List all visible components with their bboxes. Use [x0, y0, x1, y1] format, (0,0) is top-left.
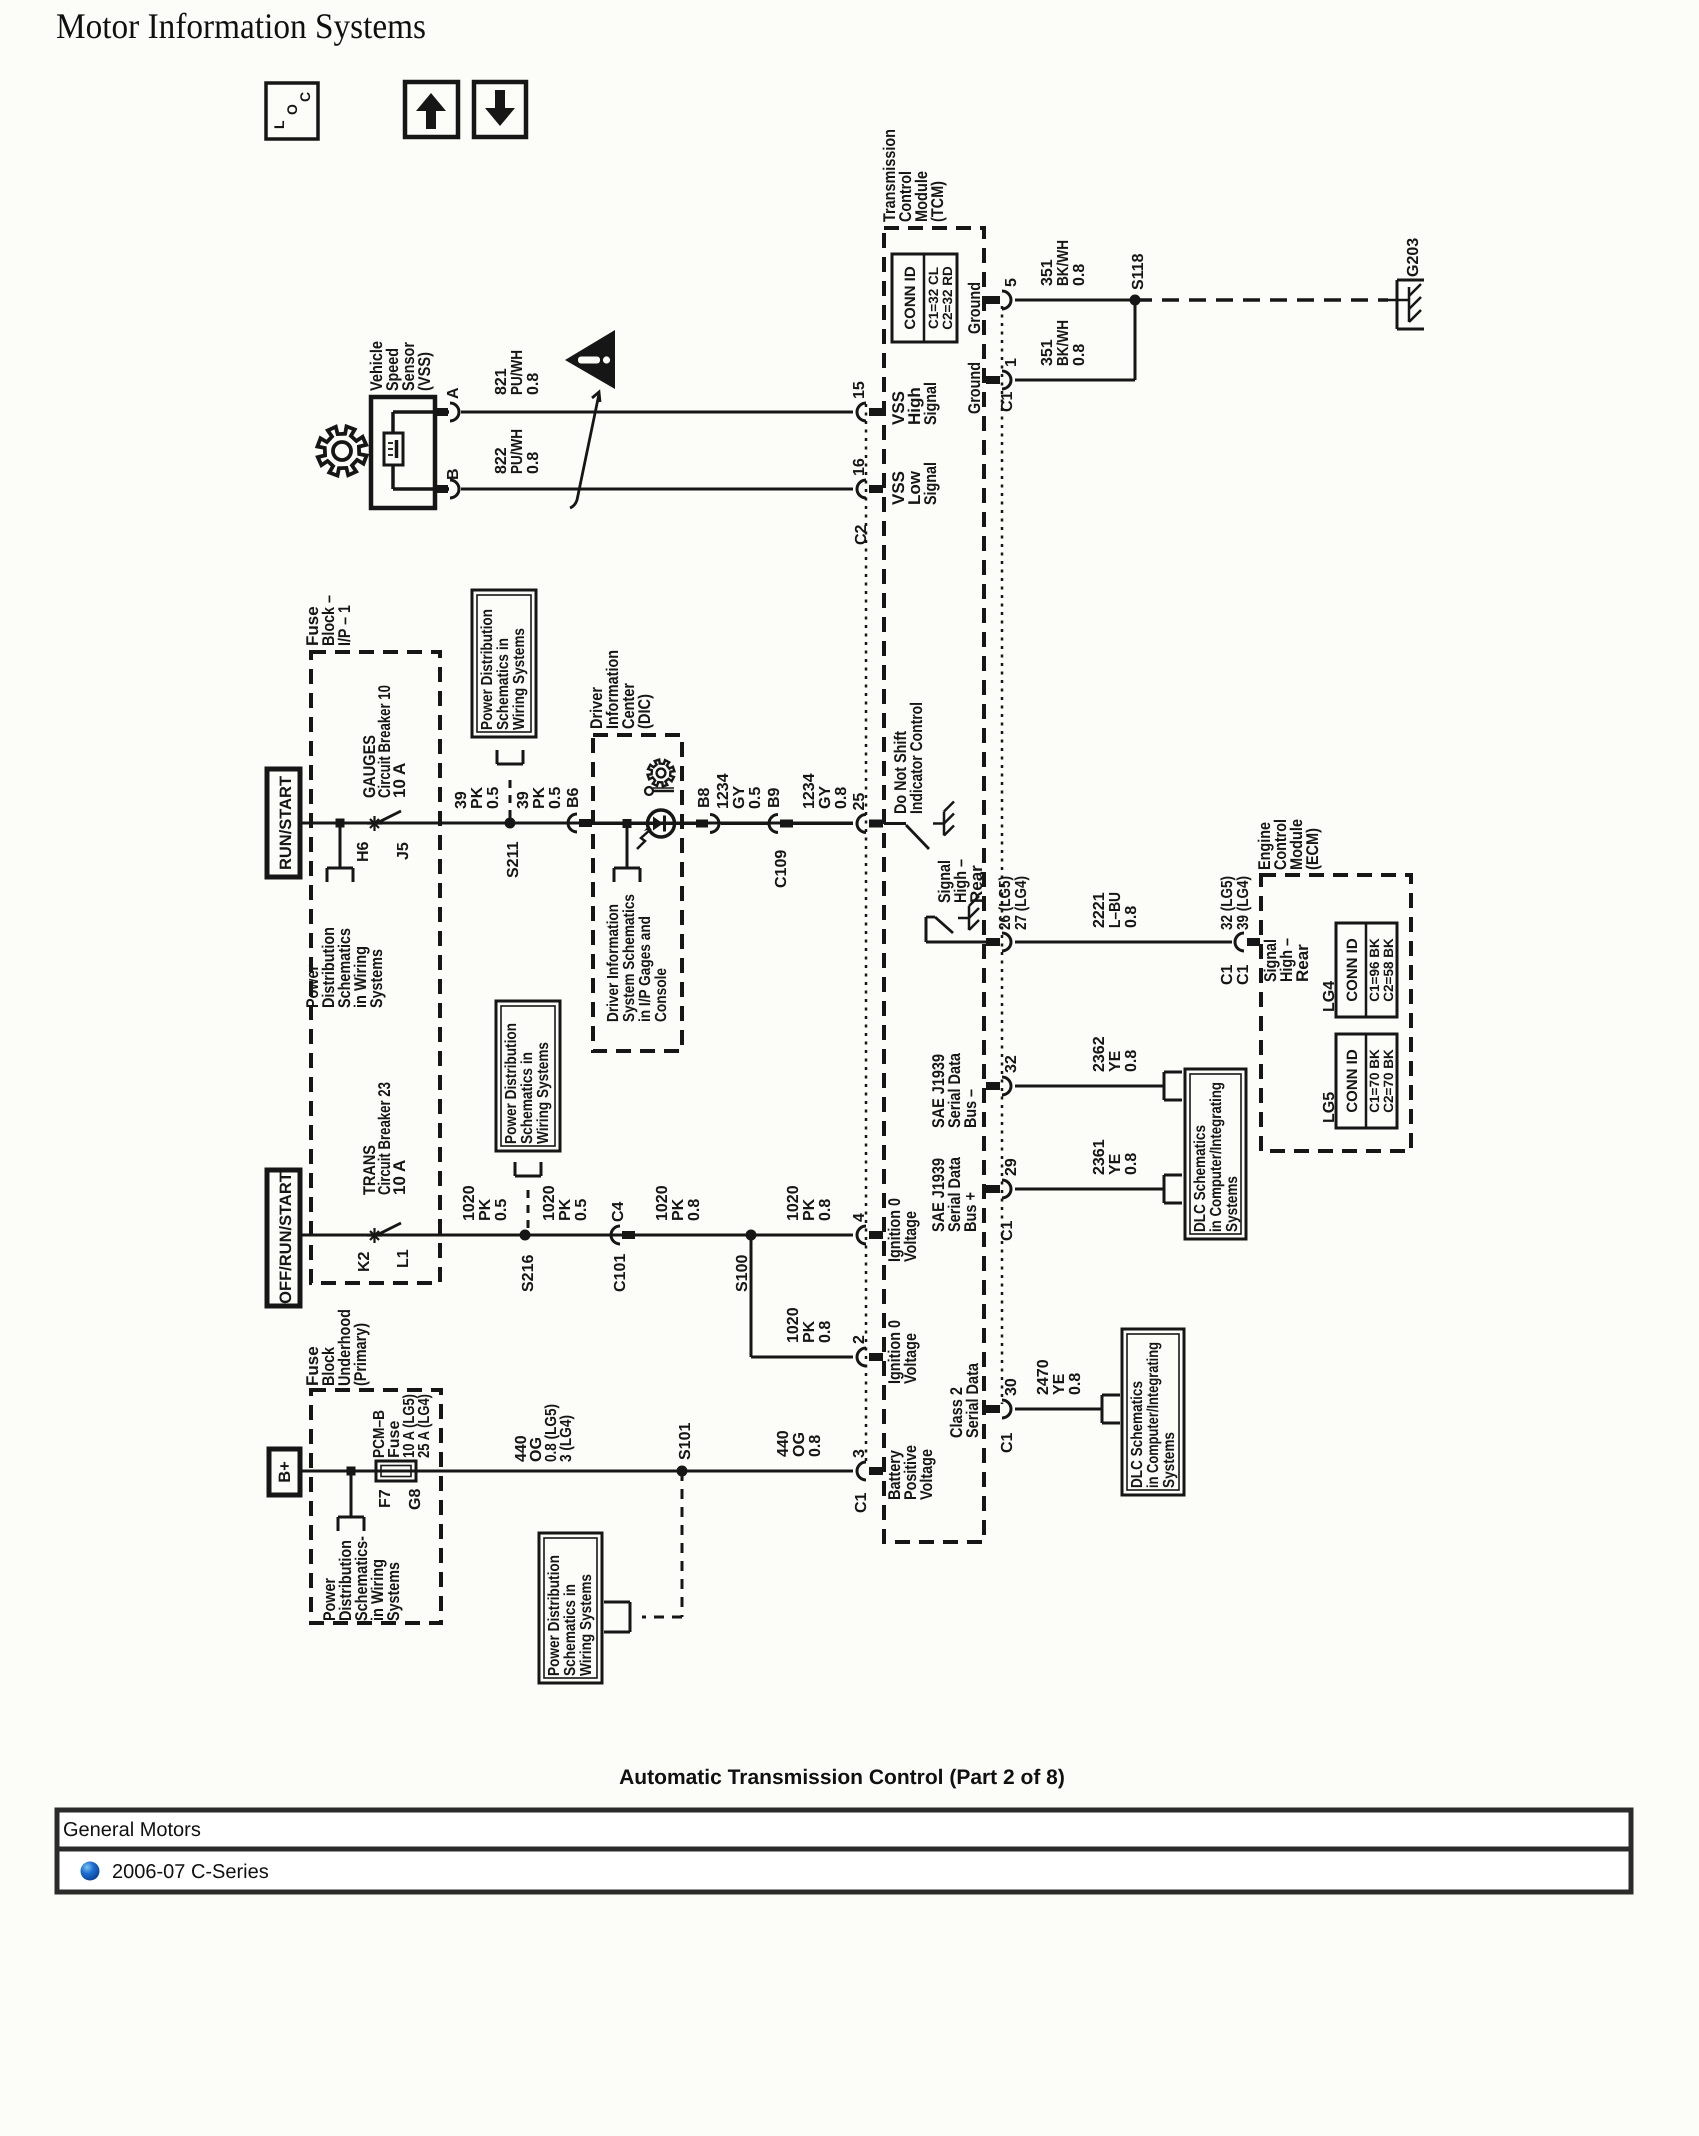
svg-text:PK: PK	[801, 1320, 818, 1343]
svg-text:Systems: Systems	[1161, 1432, 1178, 1488]
H6 stub and bracket	[336, 819, 345, 828]
TCM pin 15 VSS high signal	[857, 403, 866, 421]
svg-text:(TCM): (TCM)	[928, 181, 947, 222]
svg-text:15: 15	[851, 381, 868, 399]
svg-text:Signal: Signal	[921, 382, 940, 425]
footer table	[57, 1810, 1631, 1892]
svg-text:C1: C1	[999, 1220, 1016, 1241]
svg-text:PU/WH: PU/WH	[509, 429, 526, 474]
svg-text:YE: YE	[1051, 1373, 1068, 1395]
svg-text:YE: YE	[1107, 1050, 1124, 1072]
svg-text:(VSS): (VSS)	[415, 352, 434, 391]
engine control module ECM dashed box	[1261, 875, 1411, 1151]
svg-text:0.8: 0.8	[525, 373, 542, 395]
node S118	[1130, 295, 1141, 306]
svg-text:39: 39	[515, 791, 532, 809]
S216 dashed stub to power distribution box	[527, 1190, 530, 1230]
svg-text:DLC Schematics: DLC Schematics	[1129, 1381, 1146, 1488]
svg-text:3: 3	[851, 1449, 868, 1458]
svg-text:C1: C1	[999, 391, 1016, 412]
svg-text:G203: G203	[1405, 238, 1422, 277]
svg-text:System Schematics: System Schematics	[621, 894, 638, 1022]
svg-text:Schematics in: Schematics in	[495, 638, 512, 730]
svg-text:Console: Console	[653, 968, 670, 1022]
svg-text:Automatic Transmission Control: Automatic Transmission Control (Part 2 o…	[619, 1766, 1065, 1789]
svg-text:L: L	[271, 120, 287, 129]
svg-text:Systems: Systems	[384, 1562, 403, 1621]
svg-text:0.8: 0.8	[686, 1199, 703, 1221]
wire into DIC	[592, 822, 648, 825]
do not shift driver switch	[884, 822, 906, 825]
svg-text:0.5: 0.5	[547, 787, 564, 809]
wire B+ to S101	[300, 1470, 853, 1473]
svg-text:0.8: 0.8	[1123, 1050, 1140, 1072]
svg-text:25: 25	[851, 793, 868, 811]
svg-text:30: 30	[1003, 1378, 1020, 1396]
svg-text:C1: C1	[1219, 964, 1236, 985]
svg-text:Voltage: Voltage	[917, 1449, 936, 1500]
TCM pin 16 VSS low signal	[857, 480, 866, 498]
svg-text:1020: 1020	[785, 1185, 802, 1221]
bracket to DLC box 2	[1163, 1175, 1166, 1203]
B+ tag	[269, 1449, 300, 1495]
VSS coil element	[384, 433, 403, 465]
svg-text:1: 1	[1003, 358, 1020, 367]
svg-text:Driver Information: Driver Information	[605, 904, 622, 1022]
svg-text:C: C	[297, 92, 313, 102]
ECM LG4 CONN ID table	[1336, 923, 1397, 1017]
svg-text:Rear: Rear	[1293, 944, 1312, 982]
transmission control module TCM dashed box	[884, 228, 984, 1542]
svg-text:0.8: 0.8	[807, 1435, 824, 1457]
wire OFF/RUN/START to TCM pin 4	[300, 1234, 853, 1237]
svg-text:J5: J5	[395, 842, 412, 860]
svg-text:10 A: 10 A	[390, 1160, 409, 1195]
svg-text:BK/WH: BK/WH	[1055, 240, 1072, 286]
B+ stub and bracket	[347, 1467, 356, 1476]
svg-text:Schematics in: Schematics in	[519, 1052, 536, 1144]
svg-text:L1: L1	[395, 1249, 412, 1268]
S211 dashed stub to power distribution box	[509, 780, 512, 818]
svg-text:1020: 1020	[785, 1307, 802, 1343]
svg-text:(Primary): (Primary)	[351, 1323, 370, 1386]
svg-text:C2=58 BK: C2=58 BK	[1381, 938, 1396, 1002]
svg-text:821: 821	[493, 368, 510, 395]
svg-text:PK: PK	[477, 1198, 494, 1221]
svg-text:Bus –: Bus –	[961, 1089, 980, 1128]
svg-text:2221: 2221	[1091, 892, 1108, 928]
svg-text:G8: G8	[407, 1489, 424, 1510]
VSS pin A	[436, 408, 448, 416]
svg-text:5: 5	[1003, 278, 1020, 287]
svg-text:C2=70 BK: C2=70 BK	[1381, 1049, 1396, 1113]
svg-text:2470: 2470	[1035, 1359, 1052, 1395]
svg-text:0.8: 0.8	[1067, 1373, 1084, 1395]
svg-text:GY: GY	[817, 786, 834, 809]
node S211	[505, 818, 516, 829]
svg-text:PU/WH: PU/WH	[509, 350, 526, 395]
signal high rear switch	[925, 917, 928, 942]
svg-text:0.8: 0.8	[1123, 906, 1140, 928]
svg-text:29: 29	[1003, 1158, 1020, 1176]
lamp zigzag arrow	[637, 829, 651, 849]
svg-text:C1: C1	[999, 1432, 1016, 1453]
svg-text:10 A: 10 A	[390, 763, 409, 798]
svg-text:440: 440	[775, 1430, 792, 1457]
wire 2470 YE	[1015, 1408, 1102, 1411]
svg-text:PK: PK	[670, 1198, 687, 1221]
svg-text:in Computer/Integrating: in Computer/Integrating	[1145, 1342, 1162, 1488]
power distribution schematics box (top)	[472, 590, 536, 737]
svg-text:Ground: Ground	[965, 282, 984, 334]
bracket to power distribution box (bottom)	[629, 1602, 632, 1632]
svg-text:39: 39	[453, 791, 470, 809]
RUN/START tag	[267, 769, 300, 877]
power distribution schematics box (bottom)	[539, 1533, 602, 1683]
svg-text:0.8: 0.8	[817, 1199, 834, 1221]
svg-text:LG5: LG5	[1321, 1092, 1338, 1123]
svg-text:0.8: 0.8	[1123, 1153, 1140, 1175]
TCM pin 3 battery positive voltage	[857, 1462, 866, 1480]
svg-text:351: 351	[1039, 339, 1056, 366]
svg-text:Wiring Systems: Wiring Systems	[535, 1042, 552, 1144]
VSS pin B	[436, 485, 448, 493]
down arrow icon	[474, 82, 526, 137]
TCM pin 2 ignition 0 voltage	[857, 1348, 866, 1366]
ground (signal high rear)	[958, 917, 969, 920]
svg-text:0.8: 0.8	[1071, 264, 1088, 286]
svg-text:C2: C2	[853, 524, 870, 545]
svg-text:Motor Information Systems: Motor Information Systems	[56, 6, 426, 46]
fuse block underhood dashed box	[311, 1390, 441, 1623]
svg-text:PK: PK	[531, 786, 548, 809]
svg-text:C101: C101	[612, 1254, 629, 1292]
svg-text:PK: PK	[557, 1198, 574, 1221]
svg-text:Systems: Systems	[367, 949, 386, 1008]
svg-text:H6: H6	[355, 841, 372, 862]
svg-text:2362: 2362	[1091, 1036, 1108, 1072]
wire DIC to B8	[674, 822, 697, 825]
svg-text:in I/P Gages and: in I/P Gages and	[637, 916, 654, 1022]
svg-text:Schematics in: Schematics in	[562, 1584, 579, 1676]
ECM LG5 CONN ID table	[1336, 1034, 1397, 1128]
TCM connector dotted line right	[1001, 306, 1004, 1404]
wire 351 BK/WH pin 5	[1015, 299, 1135, 302]
GAUGES circuit breaker 10A	[367, 816, 382, 831]
svg-text:S216: S216	[520, 1255, 537, 1292]
caution triangle	[565, 330, 615, 389]
fuse F7 PCM-B	[376, 1461, 416, 1481]
node S216	[520, 1230, 531, 1241]
svg-text:B: B	[445, 468, 462, 480]
globe icon	[81, 1862, 100, 1881]
driver information center DIC dashed box	[593, 735, 682, 1051]
svg-text:Voltage: Voltage	[901, 1211, 920, 1262]
svg-text:PK: PK	[801, 1198, 818, 1221]
VSS internal wiring	[393, 410, 449, 414]
svg-text:Rear: Rear	[967, 865, 986, 903]
svg-text:General Motors: General Motors	[63, 1819, 201, 1841]
TCM C2/C1 connector dotted line left	[865, 404, 868, 1466]
twisted pair slash arrow	[570, 394, 599, 508]
svg-text:Bus +: Bus +	[961, 1192, 980, 1232]
svg-text:YE: YE	[1107, 1153, 1124, 1175]
svg-text:16: 16	[851, 458, 868, 476]
wire 351 BK/WH pin 1	[1015, 379, 1135, 382]
svg-text:LG4: LG4	[1321, 981, 1338, 1012]
svg-text:B9: B9	[766, 787, 783, 808]
svg-text:in Computer/Integrating: in Computer/Integrating	[1208, 1082, 1225, 1232]
svg-text:0.5: 0.5	[747, 787, 764, 809]
node S101	[677, 1466, 688, 1477]
ground G203	[1397, 279, 1424, 282]
svg-text:CONN ID: CONN ID	[902, 266, 919, 330]
svg-text:B+: B+	[276, 1461, 294, 1483]
svg-text:Systems: Systems	[1224, 1176, 1241, 1232]
svg-text:0.8: 0.8	[833, 787, 850, 809]
svg-text:0.8: 0.8	[1071, 344, 1088, 366]
svg-text:OG: OG	[791, 1432, 808, 1457]
svg-text:OFF/RUN/START: OFF/RUN/START	[277, 1172, 295, 1304]
DLC schematics box (J1939)	[1185, 1069, 1246, 1239]
dashed wire S118 to G203	[1135, 298, 1388, 302]
svg-text:S118: S118	[1130, 253, 1147, 290]
svg-text:C2=32 RD: C2=32 RD	[940, 266, 955, 330]
svg-text:0.8: 0.8	[525, 452, 542, 474]
connector C101 / C4	[611, 1226, 620, 1244]
wire label 1234 GY 0.8	[793, 822, 853, 825]
svg-text:822: 822	[493, 447, 510, 474]
svg-text:Power Distribution: Power Distribution	[503, 1023, 520, 1144]
ECM pin 32/39	[1235, 933, 1244, 951]
svg-text:39 (LG4): 39 (LG4)	[1235, 876, 1252, 930]
svg-text:S101: S101	[677, 1423, 694, 1460]
svg-text:C109: C109	[773, 850, 790, 888]
svg-text:DLC Schematics: DLC Schematics	[1192, 1125, 1209, 1232]
wire 821 PU/WH (VSS A to TCM 15)	[461, 411, 853, 414]
TCM pin 4 ignition 0 voltage	[857, 1226, 866, 1244]
LOC icon box	[266, 83, 318, 139]
svg-text:2: 2	[851, 1335, 868, 1344]
OFF/RUN/START tag	[267, 1170, 300, 1306]
svg-text:Signal: Signal	[921, 462, 940, 505]
svg-text:O: O	[284, 104, 300, 115]
TCM pin 26/27	[986, 938, 1000, 946]
wire 2362 YE	[1015, 1085, 1164, 1088]
svg-text:0.5: 0.5	[493, 1199, 510, 1221]
TCM CONN ID table	[892, 254, 957, 342]
svg-text:0.8: 0.8	[817, 1321, 834, 1343]
svg-text:F7: F7	[377, 1489, 394, 1508]
connector B6	[568, 814, 577, 832]
wire RUN/START to S211	[300, 822, 853, 825]
bracket to DLC box	[1163, 1072, 1166, 1100]
svg-text:GY: GY	[731, 786, 748, 809]
svg-text:32 (LG5): 32 (LG5)	[1219, 876, 1236, 930]
svg-text:351: 351	[1039, 259, 1056, 286]
svg-text:(DIC): (DIC)	[635, 694, 654, 729]
TRANS circuit breaker 10A	[367, 1228, 382, 1243]
svg-text:26 (LG5): 26 (LG5)	[997, 876, 1014, 930]
svg-text:1020: 1020	[654, 1185, 671, 1221]
svg-text:C1=32 CL: C1=32 CL	[926, 267, 941, 329]
svg-text:S211: S211	[505, 841, 522, 878]
svg-text:Wiring Systems: Wiring Systems	[511, 628, 528, 730]
wire 2221 L-BU	[1015, 941, 1232, 944]
svg-text:C1=96 BK: C1=96 BK	[1367, 938, 1382, 1002]
gear icon (vehicle speed sensor)	[317, 426, 366, 475]
vehicle speed sensor VSS box	[371, 397, 435, 508]
svg-text:BK/WH: BK/WH	[1055, 320, 1072, 366]
svg-text:0.5: 0.5	[485, 787, 502, 809]
svg-text:(ECM): (ECM)	[1303, 828, 1322, 870]
svg-text:4: 4	[851, 1213, 868, 1222]
TCM pin 25 do not shift	[857, 815, 866, 833]
svg-text:RUN/START: RUN/START	[277, 776, 295, 870]
svg-text:PK: PK	[469, 786, 486, 809]
svg-text:C1: C1	[1235, 964, 1252, 985]
svg-text:S100: S100	[734, 1255, 751, 1292]
svg-text:CONN ID: CONN ID	[1344, 1049, 1361, 1113]
fuse block I/P dashed box	[311, 652, 440, 1283]
svg-text:B8: B8	[696, 787, 713, 808]
svg-text:Indicator Control: Indicator Control	[907, 702, 926, 814]
svg-text:Power Distribution: Power Distribution	[546, 1555, 563, 1676]
svg-text:K2: K2	[356, 1251, 373, 1272]
DLC schematics box (class 2)	[1122, 1329, 1184, 1495]
svg-text:CONN ID: CONN ID	[1344, 938, 1361, 1002]
svg-text:L–BU: L–BU	[1107, 892, 1124, 928]
svg-text:Ground: Ground	[965, 362, 984, 414]
bracket to DLC box (class 2)	[1101, 1395, 1104, 1423]
svg-text:1020: 1020	[461, 1185, 478, 1221]
svg-text:32: 32	[1003, 1055, 1020, 1073]
svg-text:C1: C1	[853, 1492, 870, 1513]
up arrow icon	[405, 82, 458, 137]
svg-text:Power Distribution: Power Distribution	[479, 609, 496, 730]
ground (do not shift)	[933, 822, 944, 825]
DIC stub junction	[623, 819, 632, 828]
wire 2361 YE	[1015, 1188, 1164, 1191]
svg-text:C1=70 BK: C1=70 BK	[1367, 1049, 1382, 1113]
svg-text:3 (LG4): 3 (LG4)	[558, 1415, 575, 1462]
power distribution schematics box (middle)	[496, 1001, 560, 1151]
wire 822 PU/WH (VSS B to TCM 16)	[461, 488, 853, 491]
connector B8	[696, 820, 708, 828]
node S100	[746, 1230, 757, 1241]
svg-text:Serial Data: Serial Data	[963, 1363, 982, 1438]
svg-text:Voltage: Voltage	[901, 1333, 920, 1384]
svg-text:0.5: 0.5	[573, 1199, 590, 1221]
svg-text:1234: 1234	[801, 773, 818, 809]
svg-text:C4: C4	[610, 1201, 627, 1222]
gear+wrench service icon	[648, 760, 675, 787]
svg-text:27 (LG4): 27 (LG4)	[1013, 876, 1030, 930]
svg-text:Wiring Systems: Wiring Systems	[578, 1574, 595, 1676]
svg-text:A: A	[445, 387, 462, 399]
svg-text:B6: B6	[565, 787, 582, 808]
svg-text:I/P – 1: I/P – 1	[335, 605, 354, 646]
svg-text:1020: 1020	[541, 1185, 558, 1221]
svg-text:2361: 2361	[1091, 1139, 1108, 1175]
connector B9 / C109	[769, 815, 778, 833]
wire label 1234 GY 0.5	[721, 822, 770, 825]
svg-text:25 A (LG4): 25 A (LG4)	[416, 1394, 433, 1458]
svg-text:1234: 1234	[715, 773, 732, 809]
S101 dashed stub	[681, 1471, 684, 1617]
branch S100 to pin 2	[750, 1235, 753, 1357]
indicator lamp	[648, 810, 675, 837]
svg-text:2006-07 C-Series: 2006-07 C-Series	[112, 1861, 269, 1883]
